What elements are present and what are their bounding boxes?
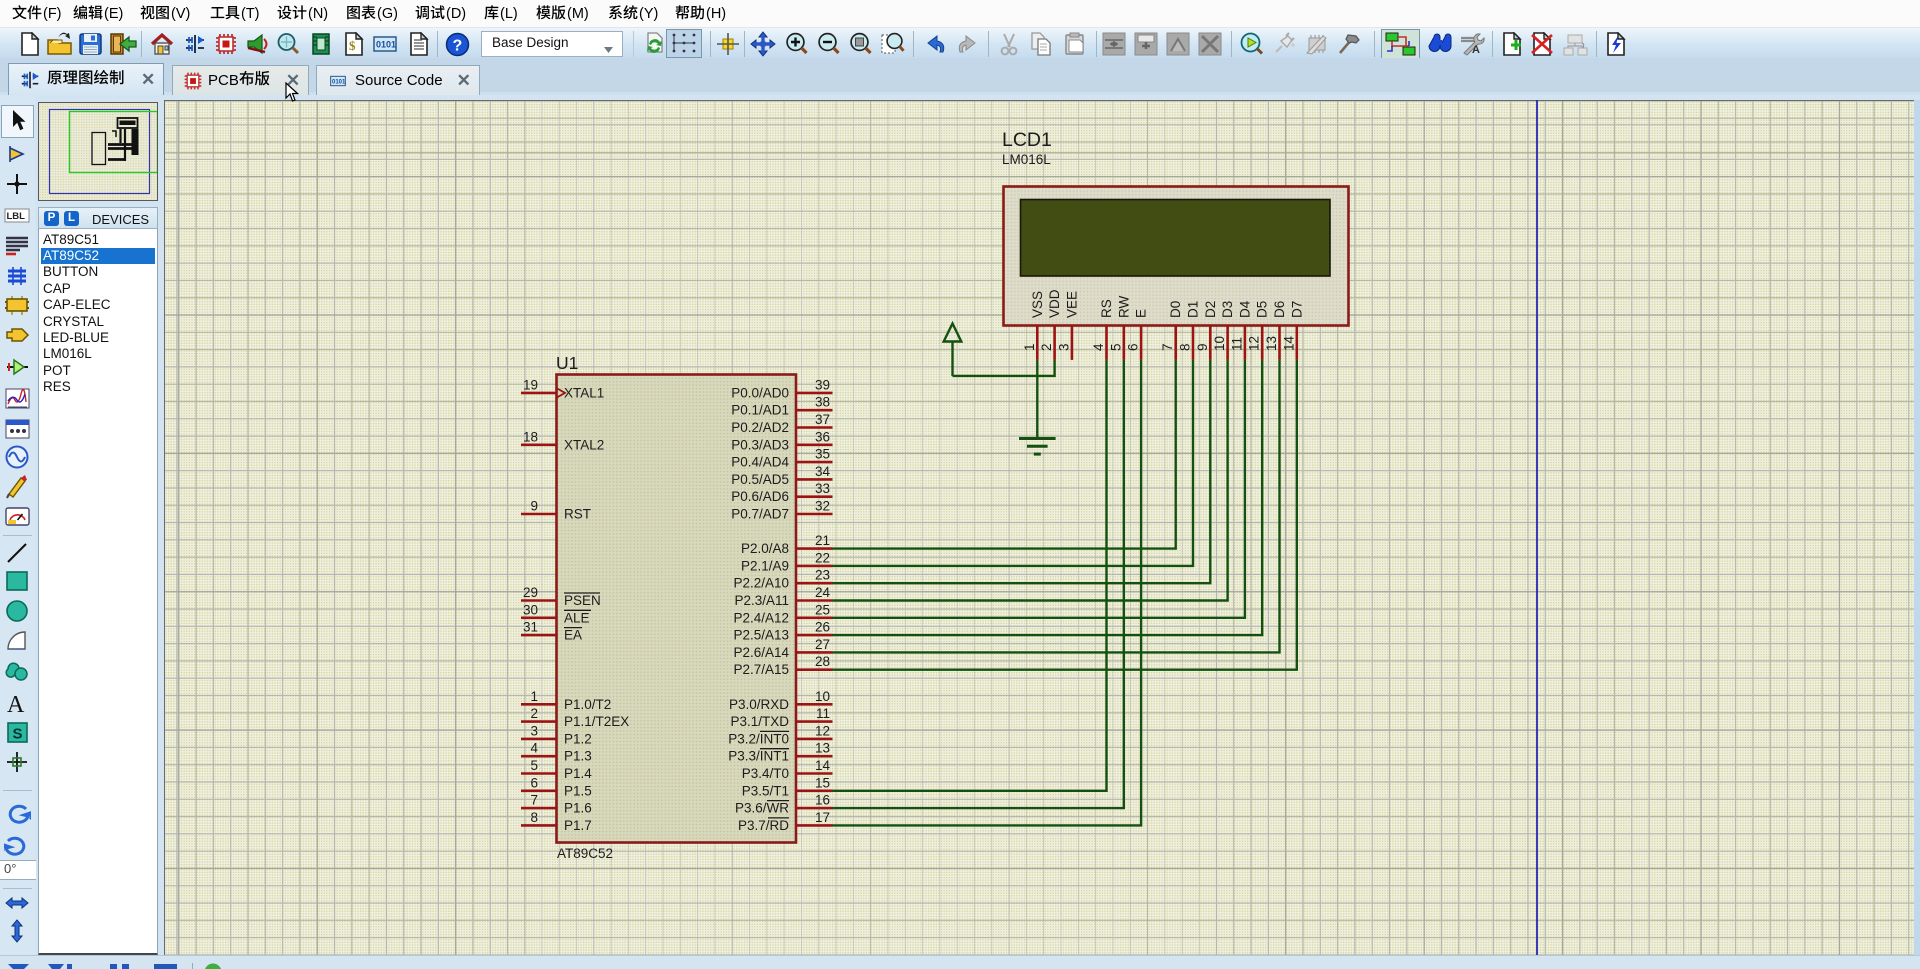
svg-text:7: 7: [1160, 343, 1175, 351]
svg-text:11: 11: [816, 706, 830, 721]
svg-text:(T): (T): [241, 6, 260, 22]
svg-text:(E): (E): [104, 6, 123, 22]
svg-text:S: S: [13, 726, 23, 743]
svg-text:P2.3/A11: P2.3/A11: [734, 593, 789, 608]
svg-text:E: E: [1134, 309, 1149, 318]
svg-text:13: 13: [815, 741, 830, 756]
svg-text:10: 10: [1212, 336, 1227, 351]
svg-text:0101: 0101: [332, 79, 346, 85]
svg-text:(V): (V): [171, 6, 190, 22]
svg-text:XTAL1: XTAL1: [564, 385, 604, 400]
svg-text:?: ?: [453, 38, 463, 55]
svg-text:27: 27: [815, 637, 830, 652]
svg-text:1: 1: [1022, 343, 1037, 351]
pin 16 P3.6/WR (right): [735, 793, 833, 816]
LCD LCD1 body: [1004, 187, 1349, 326]
svg-text:3: 3: [530, 723, 538, 738]
LCD pin 6 E: [1126, 309, 1149, 360]
svg-text:RST: RST: [564, 507, 591, 522]
svg-text:$: $: [349, 38, 356, 53]
svg-text:RS: RS: [1099, 299, 1114, 318]
pin 39 P0.0/AD0 (right): [731, 377, 832, 400]
svg-text:0101: 0101: [376, 40, 396, 50]
wire RS-P3.5: [833, 360, 1107, 791]
svg-text:34: 34: [815, 464, 831, 479]
LCD pin 9 D2: [1195, 301, 1218, 360]
pin 30 ALE (left): [521, 602, 591, 625]
LCD pin 12 D5: [1247, 301, 1270, 360]
pin 33 P0.6/AD6 (right): [731, 481, 832, 504]
wire power to VDD: [953, 360, 1055, 376]
wire RW-P3.6: [833, 360, 1124, 808]
LCD value LM016L: [1002, 152, 1051, 167]
pin 11 P3.1/TXD (right): [730, 706, 832, 729]
pin 1 P1.0/T2 (left): [521, 689, 611, 712]
wire VSS to ground: [1036, 360, 1038, 438]
svg-text:35: 35: [815, 447, 830, 462]
svg-text:39: 39: [815, 377, 830, 392]
wire D7-P2.7: [833, 360, 1297, 670]
svg-text:11: 11: [1229, 337, 1244, 351]
svg-text:5: 5: [530, 758, 538, 773]
svg-text:D4: D4: [1237, 300, 1252, 318]
svg-text:5: 5: [1108, 343, 1123, 351]
pin 21 P2.0/A8 (right): [741, 533, 833, 556]
svg-text:(Y): (Y): [639, 6, 658, 22]
wire D4-P2.4: [833, 360, 1245, 618]
pin 15 P3.5/T1 (right): [742, 775, 833, 798]
svg-text:AT89C52: AT89C52: [557, 846, 613, 861]
chip U1 body: [557, 375, 797, 843]
svg-text:P2.5/A13: P2.5/A13: [733, 628, 789, 643]
svg-text:29: 29: [523, 585, 538, 600]
svg-text:28: 28: [815, 654, 830, 669]
svg-text:3: 3: [1056, 343, 1071, 351]
LCD pin 4 RS: [1091, 299, 1114, 360]
svg-text:16: 16: [815, 793, 830, 808]
svg-text:P1.7: P1.7: [564, 818, 592, 833]
pin 23 P2.2/A10 (right): [733, 568, 832, 591]
svg-text:25: 25: [815, 602, 830, 617]
pin 19 XTAL1 (left): [521, 377, 604, 400]
svg-text:D6: D6: [1272, 301, 1287, 318]
svg-text:9: 9: [1195, 343, 1210, 351]
svg-text:P3.3/INT1: P3.3/INT1: [728, 749, 789, 764]
svg-text:P3.5/T1: P3.5/T1: [742, 783, 789, 798]
svg-text:24: 24: [815, 585, 831, 600]
svg-text:7: 7: [530, 793, 538, 808]
svg-text:D7: D7: [1289, 301, 1304, 318]
pin 26 P2.5/A13 (right): [733, 620, 832, 643]
svg-text:D2: D2: [1203, 301, 1218, 318]
svg-text:A: A: [7, 692, 25, 717]
svg-text:D1: D1: [1186, 301, 1201, 318]
LCD pin 13 D6: [1264, 301, 1287, 360]
svg-text:P1.1/T2EX: P1.1/T2EX: [564, 714, 629, 729]
svg-text:1: 1: [530, 689, 538, 704]
svg-text:P2.4/A12: P2.4/A12: [733, 610, 789, 625]
svg-text:P1.0/T2: P1.0/T2: [564, 697, 611, 712]
svg-text:(L): (L): [500, 6, 518, 22]
wire D6-P2.6: [833, 360, 1280, 653]
LCD pin 3 VEE: [1056, 291, 1079, 360]
svg-text:VDD: VDD: [1047, 289, 1062, 318]
pin 4 P1.3 (left): [521, 741, 592, 764]
svg-text:D5: D5: [1255, 301, 1270, 318]
pin 22 P2.1/A9 (right): [741, 550, 833, 573]
svg-text:P0.2/AD2: P0.2/AD2: [731, 420, 789, 435]
svg-text:P0.7/AD7: P0.7/AD7: [731, 507, 789, 522]
pin 14 P3.4/T0 (right): [742, 758, 833, 781]
svg-text:8: 8: [1178, 343, 1193, 351]
svg-text:P1.5: P1.5: [564, 783, 592, 798]
LCD pin 14 D7: [1281, 301, 1304, 360]
LCD LCD1 screen: [1021, 200, 1331, 277]
LCD pin 5 RW: [1108, 295, 1131, 359]
svg-text:LM016L: LM016L: [1002, 152, 1051, 167]
svg-text:21: 21: [815, 533, 830, 548]
svg-text:14: 14: [1281, 335, 1296, 351]
svg-text:ALE: ALE: [564, 610, 590, 625]
svg-text:18: 18: [523, 429, 538, 444]
svg-text:14: 14: [815, 758, 831, 773]
svg-text:EA: EA: [564, 628, 582, 643]
svg-text:22: 22: [815, 550, 830, 565]
power symbol +5V: [944, 324, 962, 376]
svg-text:VSS: VSS: [1030, 291, 1045, 318]
wire D2-P2.2: [833, 360, 1211, 583]
svg-text:PSEN: PSEN: [564, 593, 601, 608]
pin 27 P2.6/A14 (right): [733, 637, 832, 660]
svg-text:(F): (F): [43, 6, 62, 22]
svg-text:23: 23: [815, 568, 830, 583]
svg-text:P0.5/AD5: P0.5/AD5: [731, 472, 789, 487]
pin 28 P2.7/A15 (right): [733, 654, 832, 677]
pin 9 RST (left): [521, 499, 591, 522]
svg-text:P0.6/AD6: P0.6/AD6: [731, 489, 789, 504]
svg-text:32: 32: [815, 499, 830, 514]
svg-text:(D): (D): [446, 6, 466, 22]
svg-text:6: 6: [530, 775, 538, 790]
wire E-P3.7: [833, 360, 1142, 826]
svg-text:P3.0/RXD: P3.0/RXD: [729, 697, 789, 712]
svg-text:P3.6/WR: P3.6/WR: [735, 801, 789, 816]
LCD pin 2 VDD: [1039, 289, 1062, 360]
pin 3 P1.2 (left): [521, 723, 592, 746]
svg-text:38: 38: [815, 395, 830, 410]
svg-text:(N): (N): [308, 6, 328, 22]
svg-text:12: 12: [1247, 336, 1262, 351]
pin 34 P0.5/AD5 (right): [731, 464, 832, 487]
svg-text:D0: D0: [1168, 301, 1183, 318]
pin 32 P0.7/AD7 (right): [731, 499, 832, 522]
pin 17 P3.7/RD (right): [738, 810, 833, 833]
svg-text:P3.4/T0: P3.4/T0: [742, 766, 789, 781]
pin 36 P0.3/AD3 (right): [731, 429, 832, 452]
svg-text:D3: D3: [1220, 301, 1235, 318]
svg-text:4: 4: [1091, 343, 1106, 351]
pin 29 PSEN (left): [521, 585, 601, 608]
pin 6 P1.5 (left): [521, 775, 592, 798]
pin 2 P1.1/T2EX (left): [521, 706, 629, 729]
svg-text:P0.3/AD3: P0.3/AD3: [731, 437, 789, 452]
svg-text:P2.0/A8: P2.0/A8: [741, 541, 789, 556]
svg-text:P1.6: P1.6: [564, 801, 592, 816]
svg-text:33: 33: [815, 481, 830, 496]
svg-text:(H): (H): [706, 6, 726, 22]
svg-text:LCD1: LCD1: [1002, 129, 1052, 151]
svg-text:2: 2: [530, 706, 538, 721]
svg-text:A: A: [1472, 44, 1480, 56]
pin 10 P3.0/RXD (right): [729, 689, 833, 712]
pin 12 P3.2/INT0 (right): [728, 723, 832, 746]
svg-text:17: 17: [815, 810, 830, 825]
svg-text:31: 31: [523, 620, 538, 635]
svg-text:(G): (G): [377, 6, 398, 22]
svg-text:XTAL2: XTAL2: [564, 437, 604, 452]
pin 38 P0.1/AD1 (right): [731, 395, 832, 418]
svg-text:26: 26: [815, 620, 830, 635]
svg-text:P0.4/AD4: P0.4/AD4: [731, 455, 789, 470]
svg-text:P2.6/A14: P2.6/A14: [733, 645, 789, 660]
svg-text:13: 13: [1264, 336, 1279, 351]
svg-text:U1: U1: [556, 353, 578, 373]
LCD pin 7 D0: [1160, 301, 1183, 360]
pin 24 P2.3/A11 (right): [734, 585, 832, 608]
svg-text:P3.1/TXD: P3.1/TXD: [730, 714, 789, 729]
svg-text:RW: RW: [1116, 295, 1131, 318]
svg-text:6: 6: [1126, 343, 1141, 351]
svg-text:P1.3: P1.3: [564, 749, 592, 764]
svg-text:36: 36: [815, 429, 830, 444]
wire D5-P2.5: [833, 360, 1263, 635]
svg-text:P2.2/A10: P2.2/A10: [733, 576, 789, 591]
svg-text:P1.4: P1.4: [564, 766, 592, 781]
svg-text:LBL: LBL: [7, 211, 26, 222]
pin 8 P1.7 (left): [521, 810, 592, 833]
svg-text:(M): (M): [567, 6, 589, 22]
LCD designator LCD1: [1002, 129, 1052, 151]
pin 31 EA (left): [521, 620, 582, 643]
chip U1 designator U1: [556, 353, 578, 373]
svg-text:P3.2/INT0: P3.2/INT0: [728, 731, 789, 746]
wire D0-P2.0: [833, 360, 1176, 549]
svg-text:12: 12: [815, 723, 830, 738]
wire D1-P2.1: [833, 360, 1194, 566]
svg-text:P3.7/RD: P3.7/RD: [738, 818, 789, 833]
pin 35 P0.4/AD4 (right): [731, 447, 832, 470]
pin 25 P2.4/A12 (right): [733, 602, 832, 625]
pin 5 P1.4 (left): [521, 758, 592, 781]
svg-text:19: 19: [523, 377, 538, 392]
LCD pin 10 D3: [1212, 301, 1235, 360]
LCD pin 1 VSS: [1022, 291, 1045, 360]
svg-text:9: 9: [530, 499, 538, 514]
svg-text:P1.2: P1.2: [564, 731, 592, 746]
svg-text:P2.7/A15: P2.7/A15: [733, 662, 789, 677]
ground symbol: [1019, 439, 1056, 455]
svg-text:VEE: VEE: [1064, 291, 1079, 318]
svg-text:10: 10: [815, 689, 830, 704]
svg-text:P2.1/A9: P2.1/A9: [741, 558, 789, 573]
schematic sheet right border: [1536, 100, 1538, 955]
pin 13 P3.3/INT1 (right): [728, 741, 832, 764]
svg-text:37: 37: [815, 412, 830, 427]
pin 7 P1.6 (left): [521, 793, 592, 816]
LCD pin 11 D4: [1229, 300, 1252, 360]
LCD pin 8 D1: [1178, 301, 1201, 360]
svg-text:30: 30: [523, 602, 538, 617]
wire D3-P2.3: [833, 360, 1228, 601]
svg-text:P0.1/AD1: P0.1/AD1: [731, 403, 789, 418]
pin 37 P0.2/AD2 (right): [731, 412, 832, 435]
pin 18 XTAL2 (left): [521, 429, 604, 452]
svg-text:8: 8: [530, 810, 538, 825]
svg-text:4: 4: [530, 741, 538, 756]
svg-text:15: 15: [815, 775, 830, 790]
chip U1 value AT89C52: [557, 846, 613, 861]
svg-text:P0.0/AD0: P0.0/AD0: [731, 385, 789, 400]
svg-text:2: 2: [1039, 343, 1054, 351]
